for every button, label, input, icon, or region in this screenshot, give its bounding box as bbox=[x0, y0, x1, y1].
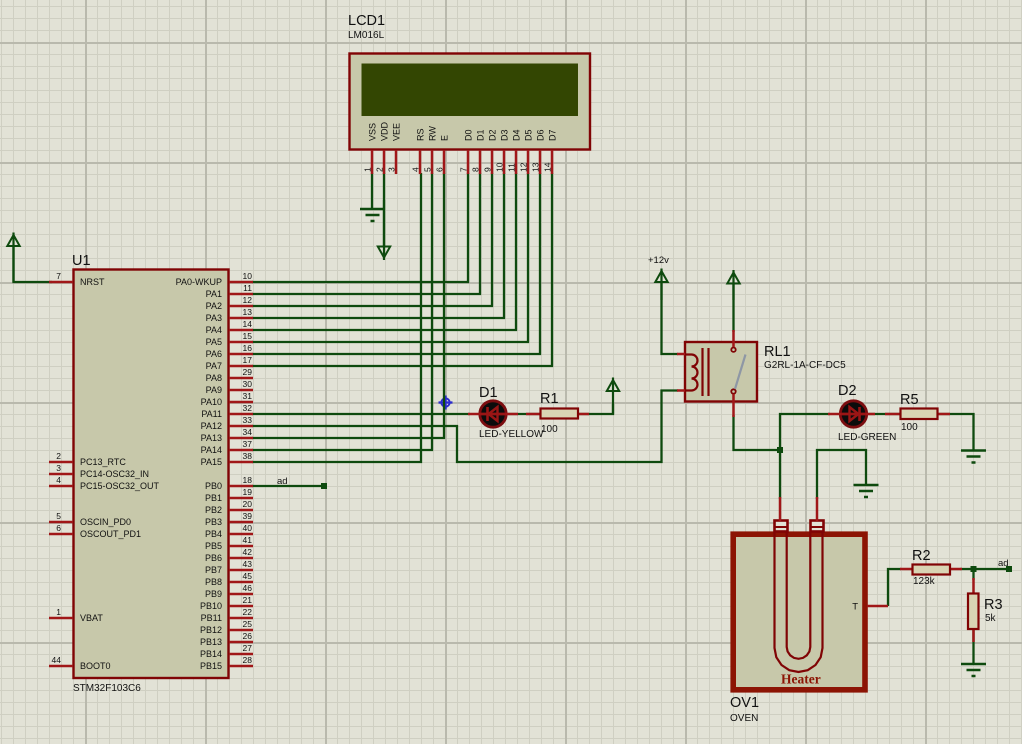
svg-text:27: 27 bbox=[243, 643, 253, 653]
svg-text:STM32F103C6: STM32F103C6 bbox=[73, 683, 141, 694]
LCD1 display screen bbox=[362, 64, 579, 117]
svg-text:G2RL-1A-CF-DC5: G2RL-1A-CF-DC5 bbox=[764, 360, 846, 371]
svg-text:43: 43 bbox=[243, 559, 253, 569]
junction at relay output node bbox=[777, 447, 783, 453]
power symbol at R1 bbox=[607, 378, 619, 415]
U1 pin 26 PB13 bbox=[200, 631, 253, 647]
U1 pin 6 OSCOUT_PD1 bbox=[49, 523, 141, 539]
node ad terminal square (left) bbox=[321, 483, 327, 489]
resistor R1 body bbox=[526, 409, 589, 419]
svg-text:33: 33 bbox=[243, 415, 253, 425]
svg-text:PA3: PA3 bbox=[206, 313, 222, 323]
wire U1 PA13 to LCD E bbox=[252, 173, 444, 438]
U1 pin 45 PB8 bbox=[205, 571, 253, 587]
OV1 heater element bbox=[775, 532, 823, 672]
wire U1 PA4 to LCD D4 bbox=[252, 173, 516, 330]
U1 pin 41 PB5 bbox=[205, 535, 253, 551]
U1 pin 42 PB6 bbox=[205, 547, 253, 563]
LCD1 pin 3 VEE bbox=[387, 123, 402, 174]
U1 pin 14 PA4 bbox=[206, 319, 253, 335]
wire U1 PA0 to LCD D0 bbox=[252, 173, 468, 282]
U1 pin 18 PB0 bbox=[205, 475, 253, 491]
LCD1 pin 5 RW bbox=[423, 126, 438, 174]
svg-text:34: 34 bbox=[243, 427, 253, 437]
svg-text:18: 18 bbox=[243, 475, 253, 485]
svg-text:PA7: PA7 bbox=[206, 361, 222, 371]
svg-text:13: 13 bbox=[531, 162, 541, 172]
svg-text:20: 20 bbox=[243, 499, 253, 509]
svg-text:D1: D1 bbox=[479, 385, 498, 401]
svg-text:RW: RW bbox=[428, 126, 438, 141]
svg-text:25: 25 bbox=[243, 619, 253, 629]
LCD1 pin 14 D7 bbox=[543, 129, 558, 174]
svg-text:RL1: RL1 bbox=[764, 344, 791, 360]
RL1 switch blade bbox=[735, 355, 746, 390]
svg-text:28: 28 bbox=[243, 655, 253, 665]
svg-text:+12v: +12v bbox=[648, 255, 669, 266]
wire junction to R3 bbox=[972, 569, 974, 580]
svg-text:4: 4 bbox=[411, 167, 421, 172]
svg-text:PB14: PB14 bbox=[200, 649, 222, 659]
node ad terminal square (right) bbox=[1006, 566, 1012, 572]
svg-text:LED-GREEN: LED-GREEN bbox=[838, 432, 896, 443]
svg-text:41: 41 bbox=[243, 535, 253, 545]
U1 pin 31 PA10 bbox=[201, 391, 253, 407]
U1 pin 43 PB7 bbox=[205, 559, 253, 575]
svg-text:OSCIN_PD0: OSCIN_PD0 bbox=[80, 517, 131, 527]
svg-text:U1: U1 bbox=[72, 253, 91, 269]
svg-text:R5: R5 bbox=[900, 392, 919, 408]
wire junction to D2 anode bbox=[780, 414, 830, 450]
svg-text:PA0-WKUP: PA0-WKUP bbox=[176, 277, 222, 287]
U1 pin 19 PB1 bbox=[205, 487, 253, 503]
LCD1 pin 11 D4 bbox=[507, 129, 522, 174]
wire U1 PA2 to LCD D2 bbox=[252, 173, 492, 306]
wire U1 PA12 to relay RL1 coil- bbox=[252, 391, 678, 463]
svg-text:T: T bbox=[852, 602, 858, 613]
wire LCD VSS to ground bbox=[371, 173, 373, 209]
oven OV1 body bbox=[733, 534, 865, 690]
U1 pin 46 PB9 bbox=[205, 583, 253, 599]
svg-text:OVEN: OVEN bbox=[730, 713, 758, 724]
svg-text:PB1: PB1 bbox=[205, 493, 222, 503]
U1 pin 33 PA12 bbox=[201, 415, 253, 431]
svg-text:R1: R1 bbox=[540, 391, 559, 407]
svg-text:D2: D2 bbox=[488, 129, 498, 141]
svg-text:PB4: PB4 bbox=[205, 529, 222, 539]
svg-text:6: 6 bbox=[435, 167, 445, 172]
resistor R2 body bbox=[900, 565, 962, 575]
LCD1 pin 10 D3 bbox=[495, 129, 510, 174]
svg-text:PB12: PB12 bbox=[200, 625, 222, 635]
power symbol at relay common bbox=[727, 270, 739, 300]
wire oven terminal 2 to ground bbox=[817, 450, 866, 499]
OV1 terminal pin stubs bbox=[780, 497, 817, 521]
svg-text:7: 7 bbox=[459, 167, 469, 172]
U1 pin 20 PB2 bbox=[205, 499, 253, 515]
svg-text:PB2: PB2 bbox=[205, 505, 222, 515]
svg-text:PB0: PB0 bbox=[205, 481, 222, 491]
svg-text:E: E bbox=[440, 135, 450, 141]
power symbol NRST +V arrow bbox=[7, 233, 19, 283]
svg-text:7: 7 bbox=[56, 271, 61, 281]
svg-text:45: 45 bbox=[243, 571, 253, 581]
U1 pin 10 PA0-WKUP bbox=[176, 271, 253, 287]
svg-text:VEE: VEE bbox=[392, 123, 402, 141]
svg-text:PB10: PB10 bbox=[200, 601, 222, 611]
LCD1 pin 12 D5 bbox=[519, 129, 534, 174]
svg-text:44: 44 bbox=[52, 655, 62, 665]
svg-text:10: 10 bbox=[243, 271, 253, 281]
wire U1 PA7 to LCD D7 bbox=[252, 173, 552, 366]
svg-text:LM016L: LM016L bbox=[348, 30, 385, 41]
svg-text:14: 14 bbox=[243, 319, 253, 329]
svg-text:PB6: PB6 bbox=[205, 553, 222, 563]
wire U1 PA14 to LCD RW bbox=[252, 173, 432, 450]
U1 pin 1 VBAT bbox=[49, 607, 103, 623]
D2 pin stubs bbox=[828, 413, 875, 416]
LCD1 pin 9 D2 bbox=[483, 129, 498, 174]
svg-text:R2: R2 bbox=[912, 548, 931, 564]
wire U1 PA5 to LCD D5 bbox=[252, 173, 528, 342]
svg-text:R3: R3 bbox=[984, 597, 1003, 613]
svg-text:30: 30 bbox=[243, 379, 253, 389]
svg-text:37: 37 bbox=[243, 439, 253, 449]
svg-text:PA6: PA6 bbox=[206, 349, 222, 359]
svg-text:PA5: PA5 bbox=[206, 337, 222, 347]
OV1 terminal 2 bbox=[811, 521, 824, 532]
LCD1 pin 2 VDD bbox=[375, 121, 390, 174]
wire R1 to power arrow bbox=[576, 404, 613, 414]
svg-text:PA2: PA2 bbox=[206, 301, 222, 311]
power symbol +12v arrow bbox=[655, 269, 667, 301]
svg-text:PB8: PB8 bbox=[205, 577, 222, 587]
svg-text:D2: D2 bbox=[838, 383, 857, 399]
svg-text:PA12: PA12 bbox=[201, 421, 222, 431]
svg-text:17: 17 bbox=[243, 355, 253, 365]
svg-text:PC15-OSC32_OUT: PC15-OSC32_OUT bbox=[80, 481, 160, 491]
wire U1 PA15 to LCD RS bbox=[252, 173, 421, 462]
svg-text:5: 5 bbox=[56, 511, 61, 521]
svg-text:NRST: NRST bbox=[80, 277, 105, 287]
wire R2 to node ad (right) bbox=[960, 568, 1006, 570]
wire U1 PA6 to LCD D6 bbox=[252, 173, 540, 354]
svg-text:BOOT0: BOOT0 bbox=[80, 661, 111, 671]
LED D2 LED-GREEN bbox=[840, 401, 866, 427]
svg-text:1: 1 bbox=[363, 167, 373, 172]
wire U1 PA3 to LCD D3 bbox=[252, 173, 504, 318]
svg-text:PA13: PA13 bbox=[201, 433, 222, 443]
svg-text:PB7: PB7 bbox=[205, 565, 222, 575]
U1 pin 22 PB11 bbox=[201, 607, 253, 623]
wire D2 cathode to R5 bbox=[866, 413, 901, 415]
ground symbol right of R5 bbox=[961, 451, 986, 463]
U1 pin 3 PC14-OSC32_IN bbox=[49, 463, 149, 479]
svg-text:2: 2 bbox=[375, 167, 385, 172]
U1 pin 29 PA8 bbox=[206, 367, 253, 383]
wire U1 PA11 to D1 anode bbox=[252, 413, 470, 415]
U1 pin 30 PA9 bbox=[206, 379, 253, 395]
RL1 switch pin stubs bbox=[732, 330, 735, 417]
svg-text:40: 40 bbox=[243, 523, 253, 533]
wire +12v to relay RL1 coil+ bbox=[662, 283, 679, 354]
IC U1 STM32F103C6 body bbox=[74, 270, 229, 679]
LCD1 pin 7 D0 bbox=[459, 129, 474, 174]
LED D1 LED-YELLOW bbox=[480, 401, 506, 427]
svg-text:3: 3 bbox=[387, 167, 397, 172]
svg-text:LCD1: LCD1 bbox=[348, 13, 385, 29]
D1 pin stubs bbox=[468, 413, 518, 416]
svg-text:12: 12 bbox=[243, 295, 253, 305]
svg-text:29: 29 bbox=[243, 367, 253, 377]
U1 pin 13 PA3 bbox=[206, 307, 253, 323]
U1 pin 44 BOOT0 bbox=[49, 655, 111, 671]
ground symbol below D2 bbox=[854, 485, 879, 497]
wire power arrow to relay RL1 common bbox=[732, 283, 734, 332]
svg-text:100: 100 bbox=[901, 422, 918, 433]
svg-text:D5: D5 bbox=[524, 129, 534, 141]
svg-text:OSCOUT_PD1: OSCOUT_PD1 bbox=[80, 529, 141, 539]
svg-text:6: 6 bbox=[56, 523, 61, 533]
svg-text:PA4: PA4 bbox=[206, 325, 222, 335]
svg-text:2: 2 bbox=[56, 451, 61, 461]
svg-text:PB3: PB3 bbox=[205, 517, 222, 527]
svg-text:D1: D1 bbox=[476, 129, 486, 141]
LCD1 pin 8 D1 bbox=[471, 129, 486, 174]
svg-text:46: 46 bbox=[243, 583, 253, 593]
svg-text:21: 21 bbox=[243, 595, 253, 605]
svg-text:5: 5 bbox=[423, 167, 433, 172]
U1 pin 39 PB3 bbox=[205, 511, 253, 527]
U1 pin 25 PB12 bbox=[200, 619, 253, 635]
LCD1 pin 6 E bbox=[435, 135, 450, 174]
U1 pin 5 OSCIN_PD0 bbox=[49, 511, 131, 527]
U1 pin 40 PB4 bbox=[205, 523, 253, 539]
svg-text:PB9: PB9 bbox=[205, 589, 222, 599]
svg-text:31: 31 bbox=[243, 391, 253, 401]
U1 pin 32 PA11 bbox=[201, 403, 253, 419]
U1 pin 16 PA6 bbox=[206, 343, 253, 359]
svg-text:11: 11 bbox=[243, 283, 252, 293]
svg-text:26: 26 bbox=[243, 631, 253, 641]
svg-text:13: 13 bbox=[243, 307, 253, 317]
svg-text:D3: D3 bbox=[500, 129, 510, 141]
RL1 coil pin stubs bbox=[677, 354, 685, 391]
svg-text:PC13_RTC: PC13_RTC bbox=[80, 457, 126, 467]
svg-text:3: 3 bbox=[56, 463, 61, 473]
svg-text:PA8: PA8 bbox=[206, 373, 222, 383]
svg-text:1: 1 bbox=[56, 607, 61, 617]
svg-text:PB5: PB5 bbox=[205, 541, 222, 551]
svg-text:VDD: VDD bbox=[380, 121, 390, 141]
svg-text:ad: ad bbox=[998, 558, 1009, 569]
resistor R5 body bbox=[885, 409, 950, 420]
wire NRST power to U1 pin 7 bbox=[14, 245, 53, 282]
wire R5 to ground bbox=[935, 414, 974, 450]
svg-text:PA14: PA14 bbox=[201, 445, 222, 455]
OV1 pin T bbox=[852, 602, 888, 613]
U1 pin 28 PB15 bbox=[200, 655, 253, 671]
svg-text:8: 8 bbox=[471, 167, 481, 172]
wire junction to oven terminal 1 bbox=[779, 450, 781, 499]
ground symbol below LCD VSS bbox=[360, 209, 385, 221]
svg-text:OV1: OV1 bbox=[730, 695, 759, 711]
svg-text:9: 9 bbox=[483, 167, 493, 172]
U1 pin 38 PA15 bbox=[201, 451, 253, 467]
svg-text:PB11: PB11 bbox=[201, 613, 222, 623]
U1 pin 34 PA13 bbox=[201, 427, 253, 443]
LCD1 pin 4 RS bbox=[411, 128, 426, 174]
wire U1 PA1 to LCD D1 bbox=[252, 173, 480, 294]
svg-text:14: 14 bbox=[543, 162, 553, 172]
svg-text:LED-YELLOW: LED-YELLOW bbox=[479, 429, 544, 440]
svg-text:22: 22 bbox=[243, 607, 253, 617]
svg-text:D6: D6 bbox=[536, 129, 546, 141]
U1 pin 7 NRST bbox=[49, 271, 105, 287]
RL1 coil bbox=[685, 355, 698, 391]
svg-text:100: 100 bbox=[541, 424, 558, 435]
svg-text:RS: RS bbox=[416, 128, 426, 141]
svg-text:PA11: PA11 bbox=[201, 409, 222, 419]
svg-text:4: 4 bbox=[56, 475, 61, 485]
svg-text:PC14-OSC32_IN: PC14-OSC32_IN bbox=[80, 469, 149, 479]
svg-text:Heater: Heater bbox=[781, 672, 821, 687]
svg-text:D4: D4 bbox=[512, 129, 522, 141]
svg-text:PA15: PA15 bbox=[201, 457, 222, 467]
RL1 core bars bbox=[703, 348, 709, 396]
U1 pin 12 PA2 bbox=[206, 295, 253, 311]
U1 pin 27 PB14 bbox=[200, 643, 253, 659]
svg-text:12: 12 bbox=[519, 162, 529, 172]
svg-text:42: 42 bbox=[243, 547, 253, 557]
svg-text:39: 39 bbox=[243, 511, 253, 521]
wire LCD VDD to power bbox=[383, 173, 385, 246]
svg-text:PA9: PA9 bbox=[206, 385, 222, 395]
svg-text:PB15: PB15 bbox=[200, 661, 222, 671]
RL1 switch contacts bbox=[731, 348, 735, 394]
svg-text:ad: ad bbox=[277, 476, 288, 487]
svg-text:D0: D0 bbox=[464, 129, 474, 141]
U1 pin 15 PA5 bbox=[206, 331, 253, 347]
wire D1 cathode to R1 bbox=[506, 413, 541, 415]
U1 pin 11 PA1 bbox=[206, 283, 253, 299]
relay RL1 G2RL-1A-CF-DC5 body bbox=[685, 342, 757, 402]
resistor R3 body bbox=[968, 578, 979, 642]
wire U1 PB0 to node ad bbox=[252, 485, 322, 487]
wire relay RL1 NO contact to junction bbox=[734, 415, 781, 450]
wire R3 to ground bbox=[972, 630, 974, 664]
junction R2/R3 node bbox=[971, 566, 977, 572]
svg-text:PA10: PA10 bbox=[201, 397, 222, 407]
svg-text:15: 15 bbox=[243, 331, 253, 341]
svg-text:PA1: PA1 bbox=[206, 289, 222, 299]
svg-text:10: 10 bbox=[495, 162, 505, 172]
svg-text:VBAT: VBAT bbox=[80, 613, 103, 623]
wire oven T sensor to R2 bbox=[888, 569, 901, 606]
svg-text:32: 32 bbox=[243, 403, 253, 413]
U1 pin 17 PA7 bbox=[206, 355, 253, 371]
LCD1 pin 13 D6 bbox=[531, 129, 546, 174]
OV1 terminal 1 bbox=[775, 521, 788, 532]
svg-text:PB13: PB13 bbox=[200, 637, 222, 647]
svg-text:19: 19 bbox=[243, 487, 253, 497]
ground symbol below R3 bbox=[961, 664, 986, 676]
svg-text:38: 38 bbox=[243, 451, 253, 461]
svg-text:5k: 5k bbox=[985, 613, 997, 624]
svg-text:123k: 123k bbox=[913, 576, 936, 587]
svg-text:VSS: VSS bbox=[368, 123, 378, 141]
origin marker (blue) bbox=[439, 396, 453, 410]
U1 pin 21 PB10 bbox=[200, 595, 253, 611]
LCD LCD1 LM016L body bbox=[350, 54, 591, 150]
svg-text:11: 11 bbox=[507, 163, 517, 172]
U1 pin 2 PC13_RTC bbox=[49, 451, 126, 467]
svg-text:16: 16 bbox=[243, 343, 253, 353]
power symbol down arrow below LCD VDD bbox=[378, 200, 390, 260]
U1 pin 37 PA14 bbox=[201, 439, 253, 455]
U1 pin 4 PC15-OSC32_OUT bbox=[49, 475, 160, 491]
svg-text:D7: D7 bbox=[548, 129, 558, 141]
LCD1 pin 1 VSS bbox=[363, 123, 378, 174]
